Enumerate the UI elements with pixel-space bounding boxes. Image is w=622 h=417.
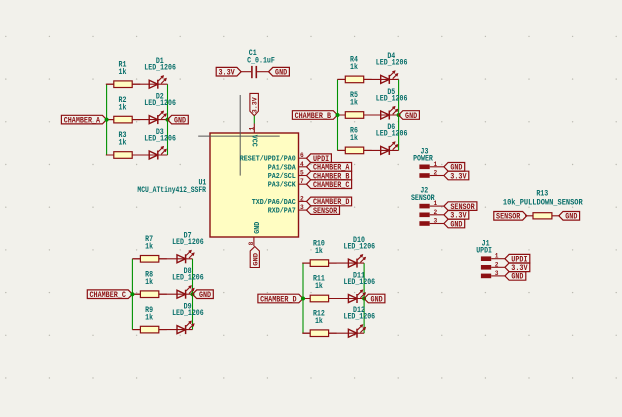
node CHAMBER_B label	[292, 111, 337, 120]
LED D3	[149, 151, 158, 159]
resistor R3	[106, 154, 140, 156]
wire A row 2	[107, 119, 168, 121]
svg-text:1k: 1k	[145, 243, 153, 252]
node CHAMBER_A label	[61, 115, 106, 124]
junction A left	[105, 118, 109, 122]
LED D6	[381, 146, 390, 154]
svg-text:GND: GND	[174, 116, 186, 125]
node CHAMBER_D label at pin 2	[307, 197, 352, 206]
resistor R2	[106, 119, 140, 121]
svg-text:2: 2	[495, 261, 499, 268]
svg-text:1k: 1k	[315, 282, 323, 291]
wire C row 2	[132, 293, 192, 295]
pin 8 GND	[253, 237, 255, 246]
pin 4 PA1/SDA	[299, 166, 307, 168]
junction B left	[336, 113, 340, 117]
pin 3 J1	[481, 274, 491, 279]
svg-text:GND: GND	[565, 213, 577, 222]
junction D right	[362, 297, 366, 301]
LED D9	[177, 326, 186, 334]
resistor R1	[106, 83, 140, 85]
svg-text:1k: 1k	[350, 63, 358, 72]
wire A right bus	[167, 84, 169, 155]
wire B row 3	[338, 149, 399, 151]
LED D7	[177, 255, 186, 263]
LED D10	[348, 259, 357, 267]
svg-text:GND: GND	[275, 69, 287, 78]
pin 1 J2	[419, 204, 429, 209]
svg-text:MCU_ATtiny412_SSFR: MCU_ATtiny412_SSFR	[137, 186, 206, 195]
svg-text:1k: 1k	[350, 134, 358, 143]
wire D right bus	[363, 263, 365, 333]
pin 2 J2	[419, 213, 429, 218]
wire A row 1	[107, 83, 168, 85]
resistor R6	[337, 149, 371, 151]
svg-text:LED_1206: LED_1206	[376, 59, 408, 68]
junction C right	[191, 292, 195, 296]
wire A row 3	[107, 154, 168, 156]
node 3.3V label J2 pin 2	[444, 211, 469, 220]
svg-text:POWER: POWER	[413, 155, 433, 164]
pin 1 J3	[419, 165, 429, 170]
wire B row 1	[338, 78, 399, 80]
ground GND label B	[399, 111, 420, 120]
svg-text:1k: 1k	[145, 278, 153, 287]
svg-text:SENSOR: SENSOR	[496, 213, 520, 222]
ground GND label R13	[559, 212, 580, 221]
svg-text:LED_1206: LED_1206	[344, 313, 376, 322]
resistor R11	[302, 298, 336, 300]
wire D row 3	[303, 332, 364, 334]
node SENSOR label J2 pin 1	[444, 202, 477, 211]
resistor R5	[337, 114, 371, 116]
svg-text:1k: 1k	[145, 313, 153, 322]
node UPDI label at pin 6	[307, 154, 332, 163]
node UPDI label J1 pin 1	[505, 254, 530, 263]
svg-text:1k: 1k	[315, 317, 323, 326]
junction B right	[397, 113, 401, 117]
wire C row 1	[132, 258, 192, 260]
pin 1 J1	[481, 256, 491, 261]
svg-text:VCC: VCC	[250, 135, 258, 148]
svg-text:GND: GND	[450, 220, 462, 229]
pin 2 TXD/PA6/DAC	[299, 200, 307, 202]
svg-text:LED_1206: LED_1206	[172, 274, 204, 283]
svg-text:1k: 1k	[119, 103, 127, 112]
svg-text:UPDI: UPDI	[476, 247, 492, 256]
node SENSOR label at pin 3	[307, 206, 340, 215]
junction A right	[166, 118, 170, 122]
node SENSOR label R13	[494, 212, 527, 221]
node CHAMBER_A label at pin 4	[307, 163, 352, 172]
svg-text:1k: 1k	[315, 247, 323, 256]
svg-text:LED_1206: LED_1206	[172, 309, 204, 318]
svg-text:R13: R13	[536, 189, 548, 198]
wire C left bus	[131, 259, 133, 330]
svg-text:3.3V: 3.3V	[450, 172, 466, 181]
cursor crosshair	[239, 95, 241, 176]
resistor R7	[132, 258, 166, 260]
svg-text:8: 8	[248, 241, 255, 245]
svg-text:LED_1206: LED_1206	[344, 278, 376, 287]
LED D1	[149, 80, 158, 88]
svg-text:RESET/UPDI/PA0: RESET/UPDI/PA0	[240, 156, 297, 164]
LED D5	[381, 111, 390, 119]
svg-text:SENSOR: SENSOR	[313, 207, 337, 216]
svg-text:TXD/PA6/DAC: TXD/PA6/DAC	[252, 199, 296, 207]
svg-text:3: 3	[495, 270, 499, 277]
wire C1 right	[257, 71, 269, 73]
svg-text:2: 2	[434, 170, 438, 177]
pin 2 J1	[481, 265, 491, 270]
resistor R12	[302, 332, 336, 334]
svg-text:1k: 1k	[119, 68, 127, 77]
resistor R9	[132, 329, 166, 331]
svg-text:1: 1	[248, 126, 255, 130]
LED D11	[348, 295, 357, 303]
node 3.3V label J1 pin 2	[505, 263, 530, 272]
wire 3.3V to pin 1	[253, 116, 255, 124]
LED D12	[348, 329, 357, 337]
wire C row 3	[132, 329, 192, 331]
svg-text:7: 7	[300, 178, 304, 185]
svg-text:PA2/SCL: PA2/SCL	[268, 173, 297, 181]
svg-text:3.3V: 3.3V	[219, 69, 235, 78]
pin 7 PA3/SCK	[299, 183, 307, 185]
node CHAMBER_C label at pin 7	[307, 180, 352, 189]
node CHAMBER_D label	[258, 294, 303, 303]
svg-text:GND: GND	[405, 112, 417, 121]
junction C left	[130, 292, 134, 296]
node GND label J1 pin 3	[505, 272, 526, 281]
svg-text:1k: 1k	[350, 99, 358, 108]
svg-text:SENSOR: SENSOR	[411, 194, 435, 203]
pin 1 VCC	[253, 124, 255, 134]
svg-text:CHAMBER_D: CHAMBER_D	[260, 295, 297, 304]
ground GND label C1	[269, 67, 290, 76]
node GND label J2 pin 3	[444, 219, 465, 228]
ground GND label C	[193, 290, 214, 299]
svg-text:LED_1206: LED_1206	[376, 94, 408, 103]
wire D row 2	[303, 298, 364, 300]
svg-text:PA1/SDA: PA1/SDA	[268, 164, 297, 172]
junction D left	[301, 297, 305, 301]
resistor R13	[525, 215, 560, 217]
svg-text:CHAMBER_B: CHAMBER_B	[295, 112, 332, 121]
svg-text:LED_1206: LED_1206	[144, 134, 176, 143]
pin 5 PA2/SCL	[299, 175, 307, 177]
pin 3 RXD/PA7	[299, 209, 307, 211]
svg-text:GND: GND	[199, 291, 211, 300]
wire D left bus	[302, 263, 304, 333]
ground GND label D	[364, 294, 385, 303]
wire D row 1	[303, 262, 364, 264]
svg-text:GND: GND	[254, 221, 262, 234]
power 3.3V label C1	[216, 67, 241, 76]
power 3.3V symbol above U1	[250, 93, 259, 115]
svg-text:4: 4	[300, 161, 304, 168]
svg-text:3.3V: 3.3V	[252, 97, 259, 113]
svg-text:GND: GND	[371, 295, 383, 304]
wire B row 2	[338, 114, 399, 116]
svg-text:1: 1	[434, 200, 438, 207]
svg-text:2: 2	[434, 209, 438, 216]
wire B left bus	[337, 79, 339, 150]
svg-text:CHAMBER_C: CHAMBER_C	[313, 181, 350, 190]
svg-text:1: 1	[495, 253, 499, 260]
pin 6 RESET/UPDI/PA0	[299, 157, 307, 159]
svg-text:LED_1206: LED_1206	[144, 99, 176, 108]
LED D4	[381, 75, 390, 83]
svg-text:GND: GND	[511, 273, 523, 282]
svg-text:RXD/PA7: RXD/PA7	[268, 208, 296, 216]
svg-text:10k_PULLDOWN_SENSOR: 10k_PULLDOWN_SENSOR	[503, 198, 583, 207]
svg-text:3: 3	[300, 204, 304, 211]
pin 3 J2	[419, 221, 429, 226]
LED D2	[149, 116, 158, 124]
svg-text:PA3/SCK: PA3/SCK	[268, 182, 297, 190]
svg-text:LED_1206: LED_1206	[144, 64, 176, 73]
resistor R4	[337, 78, 371, 80]
ground GND label A	[168, 115, 189, 124]
wire C1 left	[241, 71, 251, 73]
wire C right bus	[192, 259, 194, 330]
node GND label J3 pin 1	[444, 163, 465, 172]
svg-text:GND: GND	[253, 253, 260, 266]
svg-text:LED_1206: LED_1206	[376, 130, 408, 139]
svg-text:LED_1206: LED_1206	[344, 242, 376, 251]
svg-text:5: 5	[300, 170, 304, 177]
node CHAMBER_B label at pin 5	[307, 171, 352, 180]
svg-text:6: 6	[300, 152, 304, 159]
svg-text:C_0.1uF: C_0.1uF	[247, 56, 275, 65]
svg-text:CHAMBER_A: CHAMBER_A	[64, 116, 101, 125]
node CHAMBER_C label	[87, 290, 132, 299]
wire A left bus	[106, 84, 108, 155]
ground symbol below U1	[250, 247, 259, 268]
resistor R8	[132, 293, 166, 295]
pin 2 J3	[419, 173, 429, 178]
svg-text:3: 3	[434, 218, 438, 225]
svg-text:LED_1206: LED_1206	[172, 238, 204, 247]
node 3.3V label J3 pin 2	[444, 171, 469, 180]
svg-text:1: 1	[434, 161, 438, 168]
svg-text:1k: 1k	[119, 139, 127, 148]
LED D8	[177, 290, 186, 298]
capacitor C1	[251, 66, 253, 78]
wire B right bus	[398, 79, 400, 150]
svg-text:CHAMBER_C: CHAMBER_C	[89, 291, 126, 300]
svg-text:2: 2	[300, 195, 304, 202]
resistor R10	[302, 262, 336, 264]
IC U1 MCU_ATtiny412_SSFR	[210, 133, 299, 237]
